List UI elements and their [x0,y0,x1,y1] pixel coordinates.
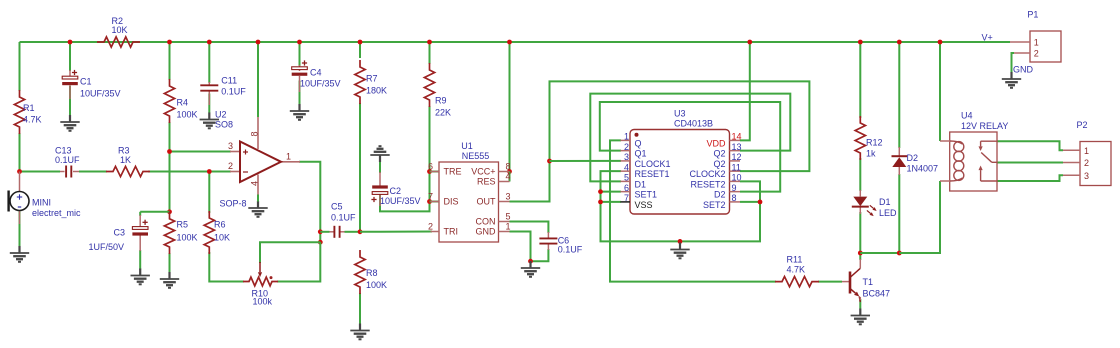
svg-text:CLOCK2: CLOCK2 [689,169,725,179]
svg-text:1N4007: 1N4007 [907,164,939,174]
node junction rail-R9 [427,40,432,45]
wire D2 bottom [898,174,900,253]
wire R11 to T1 base [818,281,842,283]
svg-text:VCC+: VCC+ [471,167,495,177]
svg-text:R1: R1 [23,103,35,113]
label R4 value [177,98,198,120]
resistor R8 [355,250,365,294]
svg-text:9: 9 [732,183,737,193]
resistor R4 [164,79,174,123]
node junction mic/R1/C13 [17,169,22,174]
svg-text:C11: C11 [221,76,237,86]
capacitor C6 [539,232,557,250]
label opamp pin3 [228,141,233,151]
svg-text:BC847: BC847 [863,289,891,299]
svg-text:8: 8 [250,131,260,136]
svg-text:T1: T1 [863,277,874,287]
wire Q1 net to R11 [610,140,776,281]
svg-text:electret_mic: electret_mic [32,208,81,218]
svg-text:Q2: Q2 [713,149,725,159]
connector P2 [1063,142,1111,186]
wire 555 GND [510,232,531,262]
resistor R6 [204,211,214,254]
svg-text:2: 2 [1084,158,1089,168]
label C5 value [331,202,356,223]
diode D2 [892,147,908,175]
svg-text:C4: C4 [310,68,322,78]
label C6 value [558,236,583,255]
node junction VSS [598,200,603,205]
svg-text:VDD: VDD [706,138,726,148]
wire R7 bottom to TRI node [359,103,361,232]
label U1 name [461,141,489,161]
wire SET2 stub wire [740,201,760,203]
label C2 value [380,186,421,206]
svg-text:GND: GND [1013,65,1034,75]
label T1 value [863,277,891,299]
ground C2 inverted [370,146,389,162]
label MIC1 value [32,198,81,219]
label U4 name [961,111,1008,132]
ground U3 [670,243,689,259]
wire CON to C6 [510,222,549,234]
label R2 value [112,16,128,35]
capacitor C3 [132,215,148,251]
label C11 value [221,76,246,97]
wire C4 bottom [299,81,301,105]
svg-text:CLOCK1: CLOCK1 [635,159,671,169]
svg-text:CD4013B: CD4013B [674,119,713,129]
svg-text:D1: D1 [879,197,891,207]
svg-text:2: 2 [624,142,629,152]
svg-text:12: 12 [732,152,742,162]
node junction rail-D2 [897,40,902,45]
svg-text:V+: V+ [982,33,993,43]
svg-text:3: 3 [506,192,511,202]
node junction out/C5 [318,229,323,234]
wire OUT net [510,81,810,201]
node junction R5/C3 [167,209,172,214]
svg-text:TRE: TRE [444,167,462,177]
svg-text:DIS: DIS [444,197,459,207]
node junction D2/relay [897,251,902,256]
wire R1 bottom to mic node [19,133,21,172]
node junction U3 ground [678,239,683,244]
svg-text:TRI: TRI [444,227,459,237]
ic U1 pin labels [428,162,511,237]
svg-text:11: 11 [732,162,741,172]
svg-text:CON: CON [476,217,496,227]
wire opamp output [299,162,320,242]
svg-text:Q2: Q2 [713,159,725,169]
svg-text:U1: U1 [461,141,473,151]
wire V+ rail [20,41,1011,43]
label R7 value [366,74,387,96]
svg-text:C2: C2 [390,186,402,196]
ground C6 [521,261,540,277]
svg-text:3: 3 [1084,171,1089,181]
svg-text:180K: 180K [366,86,387,96]
led D1 [852,190,877,216]
label R9 value [435,96,451,118]
svg-text:4: 4 [506,172,511,182]
microphone MIC1 electret [9,172,29,225]
node junction LED/collector [858,251,863,256]
ground C1 [60,115,79,131]
svg-text:U3: U3 [674,109,686,119]
svg-text:MINI: MINI [32,198,51,208]
capacitor C13 [60,166,79,178]
svg-text:1: 1 [1084,146,1089,156]
wire R7 top [359,42,361,58]
label opamp package [220,199,247,209]
node junction rail-R12 [858,40,863,45]
ground R8 [350,324,369,340]
svg-text:10UF/35V: 10UF/35V [80,89,121,99]
svg-text:OUT: OUT [477,197,497,207]
label P2 name [1077,120,1088,130]
node junction OUT [547,159,552,164]
svg-text:10K: 10K [112,25,128,35]
resistor R1 [14,90,24,134]
svg-text:R3: R3 [118,146,130,156]
label C3 value [89,228,126,253]
svg-text:10UF/35V: 10UF/35V [380,196,421,206]
wire CLOCK1 line [550,160,622,162]
wire C3 bottom [139,250,141,270]
wire collector line [860,252,899,254]
svg-text:R4: R4 [177,98,189,108]
svg-text:5: 5 [506,212,511,222]
node junction rail-R4 [167,40,172,45]
svg-text:10K: 10K [214,233,230,243]
node junction DIS [427,199,432,204]
label C1 value [80,77,121,99]
wire C5 line [320,231,360,233]
node junction rail-relay [938,40,943,45]
node V+ label [982,33,993,43]
svg-text:R12: R12 [866,138,883,148]
svg-text:C3: C3 [114,228,126,238]
wire relay coil bottom [899,181,940,253]
node junction rail-pin8 [256,40,261,45]
svg-text:14: 14 [732,132,742,142]
node junction rail-R7 [358,40,363,45]
potentiometer R10 [243,262,278,286]
svg-text:8: 8 [732,193,737,203]
svg-text:2: 2 [428,222,433,232]
connector P1 [1010,31,1061,62]
node junction SET1 [598,189,603,194]
wire LED to collector node [859,212,861,260]
svg-text:D1: D1 [635,179,647,189]
wire R4 top [169,42,171,80]
svg-text:1: 1 [506,222,511,232]
wire SET1 stub wire [601,191,622,193]
wire R6 bottom to R10 [209,252,244,282]
wire R9 top [429,42,431,64]
svg-text:4: 4 [250,181,260,186]
capacitor C2 [371,172,387,206]
wire NE555 VCC supply [509,42,511,172]
label opamp pin2 [228,161,233,171]
wire D1 to Q2 loop [590,94,790,182]
resistor R9 [424,63,434,107]
svg-text:C13: C13 [55,146,72,156]
label U3 name [674,109,713,129]
svg-text:6: 6 [624,183,629,193]
wire C3 branch [140,212,169,216]
ground mic [10,246,29,262]
wire opamp pin8 supply [257,42,259,117]
resistor R2 [97,37,140,47]
resistor R11 [775,277,819,287]
svg-text:6: 6 [428,162,433,172]
svg-text:7: 7 [428,192,433,202]
svg-text:12V RELAY: 12V RELAY [961,121,1008,131]
ground C4 [290,104,309,120]
capacitor C11 [200,82,218,105]
svg-text:R5: R5 [177,220,189,230]
svg-text:10: 10 [732,173,742,183]
svg-text:Q1: Q1 [635,149,647,159]
wire R5 bottom [169,253,171,273]
wire T1 emitter to ground [859,299,861,309]
label R5 value [177,220,198,243]
wire R6 top [208,172,210,214]
label U2 package [215,110,233,130]
wire relay NC to P2-1 [997,141,1063,150]
svg-text:4.7K: 4.7K [23,115,42,125]
ground C3 [131,269,150,285]
resistor R3 [106,166,150,176]
svg-text:1: 1 [286,152,291,162]
label R3 value [118,146,131,166]
svg-text:8: 8 [506,162,511,172]
resistor R12 [855,116,865,160]
node junction VCC/RES [507,169,512,174]
wire R8 bottom [359,293,361,324]
svg-text:P1: P1 [1027,10,1038,20]
svg-text:Q: Q [635,138,642,148]
svg-text:P2: P2 [1077,120,1088,130]
svg-text:D2: D2 [907,153,919,163]
label C13 value [55,146,80,166]
node junction rail-VCC555 [507,40,512,45]
svg-text:RESET1: RESET1 [635,169,670,179]
ic U3 CD4013B body [621,130,741,215]
svg-text:NE555: NE555 [462,151,490,161]
label R11 value [787,255,806,275]
wire R12 top [859,42,861,118]
ground P1 [1002,72,1021,88]
wire TRI line [360,231,432,233]
wire RES loop [509,172,511,182]
wire DIS stub wire [430,201,441,203]
resistor R7 [355,60,365,104]
wire relay NO to P2-3 [997,175,1063,181]
node junction R4/R5/pin3 [167,149,172,154]
resistor R5 [164,212,174,254]
ground R5 [160,272,179,288]
wire C2 top [379,162,381,173]
svg-text:1UF/50V: 1UF/50V [89,242,125,252]
label opamp pin8 [250,131,260,136]
svg-text:R11: R11 [787,255,803,265]
svg-text:100K: 100K [366,280,387,290]
label opamp pin1 [286,152,291,162]
wire TRE stub wire [430,171,441,173]
label R12 value [866,138,883,159]
wire R1 top [19,42,21,91]
node junction pin2-R6 [207,169,212,174]
svg-text:100k: 100k [253,297,273,307]
svg-text:SOP-8: SOP-8 [220,199,247,209]
wire relay coil top [939,42,941,141]
node junction out/R10 [318,240,323,245]
svg-text:4.7K: 4.7K [787,265,806,275]
ground opamp pin4 [248,201,267,217]
label C4 value [300,68,341,89]
svg-text:4: 4 [624,162,629,172]
svg-text:U2: U2 [215,110,227,120]
svg-text:R8: R8 [366,268,378,278]
svg-text:7: 7 [624,193,629,203]
svg-text:100K: 100K [177,233,198,243]
wire mic to ground [19,211,21,247]
label R10 value [252,289,273,307]
svg-text:VSS: VSS [635,200,653,210]
wire VDD supply [740,42,750,140]
label D1 value [879,197,897,218]
svg-text:10UF/35V: 10UF/35V [300,79,341,89]
wire C4 top [299,42,301,66]
wire R10 wiper [260,242,320,263]
wire RESET1/SET1/VSS ground net [601,171,761,241]
svg-text:0.1UF: 0.1UF [331,213,356,223]
wire C6 bottom [531,249,549,261]
svg-text:RES: RES [477,177,496,187]
wire C1 top [69,42,71,71]
capacitor C4 [292,60,308,92]
label R6 value [214,220,230,243]
svg-text:2: 2 [228,161,233,171]
wire Q1bar to D2 loop [600,102,780,192]
wire R10 right end [277,242,320,281]
svg-text:R9: R9 [435,96,447,106]
svg-text:R6: R6 [214,220,226,230]
svg-text:U4: U4 [961,111,973,121]
op-amp U2 triangle [230,117,300,202]
svg-text:0.1UF: 0.1UF [55,155,80,165]
svg-text:0.1UF: 0.1UF [221,87,246,97]
capacitor C5 [330,226,345,238]
label D2 value [907,153,939,174]
wire C11 bottom [208,94,210,114]
node junction rail-C1 [68,40,73,45]
node junction rail-C4 [297,40,302,45]
svg-text:22K: 22K [435,108,451,118]
ground C11/U2 [200,113,219,129]
wire relay COM to P2-2 [997,162,1063,164]
svg-text:SET2: SET2 [703,200,726,210]
wire C11 top [208,42,210,83]
wire mic input line [20,171,232,173]
label P1 name [1027,10,1038,20]
wire R12 to LED [859,158,861,191]
svg-text:0.1UF: 0.1UF [558,244,583,254]
wire D2 top [898,42,900,148]
svg-text:D2: D2 [714,190,726,200]
svg-text:1k: 1k [866,149,876,159]
wire R4-R5 node to opamp pin3 [170,122,232,213]
ic U3 pin labels [624,132,742,210]
label R8 value [366,268,387,290]
node junction C6/GND [528,259,533,264]
node junction rail-VDD [747,40,752,45]
svg-text:C1: C1 [80,77,92,87]
node junction rail-C11 [207,40,212,45]
wire C1 bottom [69,86,71,116]
node junction R9/TRE [427,169,432,174]
svg-text:C5: C5 [331,202,343,212]
wire C2 bottom to DIS [380,194,430,211]
svg-text:5: 5 [624,173,629,183]
svg-text:3: 3 [228,141,233,151]
svg-text:GND: GND [476,227,497,237]
capacitor C1 [62,70,78,99]
wire P1 pin2 to GND [1012,53,1015,72]
svg-text:2: 2 [1034,49,1039,59]
connector P2 pin numbers [1084,146,1089,181]
svg-text:LED: LED [879,208,897,218]
svg-text:13: 13 [732,142,742,152]
transistor T1 BC847 [842,259,860,302]
label R1 value [23,103,42,125]
relay U4 12V [940,132,997,191]
node junction SET2 [758,200,763,205]
svg-text:SO8: SO8 [215,120,233,130]
svg-text:1: 1 [624,132,629,142]
ic U1 NE555 body [431,162,510,242]
svg-text:1: 1 [1034,38,1039,48]
connector P1 pin numbers [1034,38,1039,59]
wire R9 bottom to TRE/DIS [429,106,431,202]
svg-text:SET1: SET1 [635,190,658,200]
svg-text:1K: 1K [120,155,131,165]
label opamp pin4 [250,181,260,186]
svg-text:100K: 100K [177,110,198,120]
svg-text:R7: R7 [366,74,378,84]
svg-text:RESET2: RESET2 [690,179,725,189]
ground T1 [851,309,870,325]
wire VSS stub wire [601,201,622,203]
label P1 GND [1013,65,1034,75]
svg-text:3: 3 [624,152,629,162]
node junction C5/R8/TRI [358,229,363,234]
